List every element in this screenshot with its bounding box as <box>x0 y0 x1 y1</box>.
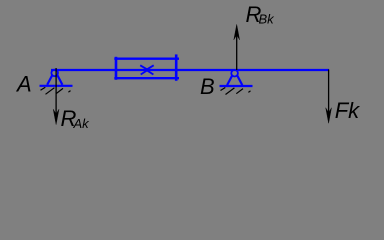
support B hatching <box>221 88 251 95</box>
support B pin circle <box>231 70 238 77</box>
label B (support node B) <box>200 74 215 99</box>
support A ground line <box>40 85 73 87</box>
svg-text:B: B <box>200 74 215 99</box>
svg-text:Fk: Fk <box>335 98 360 123</box>
support A hatching <box>41 87 71 94</box>
svg-text:A: A <box>15 71 32 96</box>
support B triangle <box>227 76 242 86</box>
support A triangle <box>47 75 62 85</box>
force line R_Ak (reaction at A, downward) <box>53 68 59 125</box>
svg-text:Bk: Bk <box>259 12 276 27</box>
component box (element on beam) <box>114 54 179 80</box>
svg-text:Ak: Ak <box>73 116 91 131</box>
node X mark in box <box>140 65 154 74</box>
support B ground line <box>220 85 253 87</box>
label Fk <box>335 98 360 123</box>
force line R_Bk (reaction at B, upward) <box>234 24 240 70</box>
wire beam main <box>51 69 329 71</box>
force line Fk (applied load, downward) <box>326 70 332 124</box>
label R_Bk <box>246 2 276 27</box>
label A (support node A) <box>15 71 32 96</box>
label R_Ak <box>61 106 91 131</box>
support A pin circle <box>51 70 58 77</box>
